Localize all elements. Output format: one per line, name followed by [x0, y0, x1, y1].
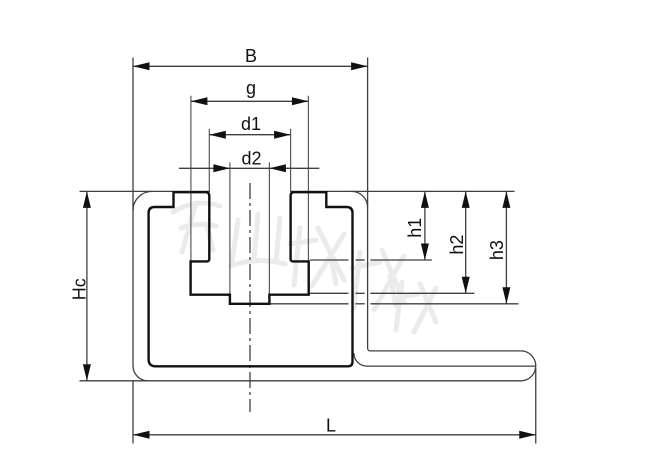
svg-text:h3: h3: [487, 240, 507, 260]
svg-text:Hc: Hc: [70, 278, 90, 300]
svg-text:B: B: [245, 46, 257, 66]
svg-text:d1: d1: [241, 114, 261, 134]
svg-text:h1: h1: [405, 218, 425, 238]
svg-text:h2: h2: [447, 235, 467, 255]
svg-text:d2: d2: [242, 148, 262, 168]
svg-text:g: g: [246, 78, 256, 98]
svg-text:L: L: [326, 416, 336, 436]
